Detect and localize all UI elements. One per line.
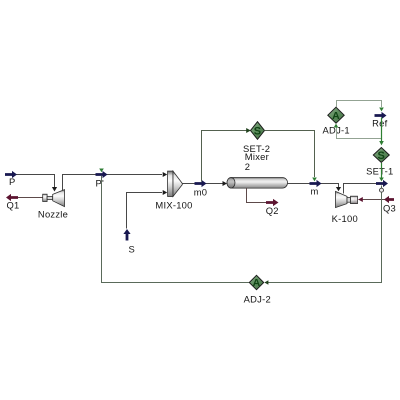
wire SET-2 to m <box>265 131 315 178</box>
adjust ADJ-2 icon <box>249 275 263 289</box>
arrowhead into SET-2 <box>246 128 251 133</box>
arrowhead ADJ-1 at Ref <box>379 108 384 112</box>
energy stream Q1 marker <box>6 194 18 201</box>
wire m0 to SET-2 <box>202 131 250 182</box>
svg-text:m: m <box>310 186 318 197</box>
set SET-1 icon <box>373 148 389 163</box>
arrowhead into K-100 inlet <box>336 187 341 191</box>
stream m marker <box>310 180 322 187</box>
arrowhead SET-1 at outlet stream <box>379 178 384 182</box>
stream S marker (points up) <box>123 229 130 241</box>
stream Ref marker <box>375 112 387 119</box>
svg-text:S: S <box>378 150 386 162</box>
svg-text:MIX-100: MIX-100 <box>155 199 192 210</box>
svg-text:K-100: K-100 <box>332 213 358 224</box>
wire green line to ADJ-1 bottom <box>337 128 382 139</box>
junction circle below outlet stream <box>380 186 384 193</box>
arrowhead SET-2 at m <box>312 178 317 182</box>
svg-text:SET-1: SET-1 <box>366 166 393 177</box>
stream P marker <box>5 171 17 178</box>
arrowhead into ADJ-1 bottom <box>334 124 339 128</box>
stream P' marker <box>96 171 108 178</box>
arrowhead into MIX-100 top inlet <box>163 172 168 177</box>
svg-text:A: A <box>253 277 261 289</box>
svg-text:P: P <box>9 176 16 187</box>
arrowhead into pipe inlet <box>223 181 228 186</box>
wire K-100 outlet to outlet stream <box>344 184 378 194</box>
svg-text:Q3: Q3 <box>383 203 396 214</box>
wire pipe to m to K-100 inlet <box>288 184 339 188</box>
arrowhead into Nozzle inlet <box>52 187 57 192</box>
arrowhead into SET-1 top <box>379 141 384 145</box>
svg-text:S: S <box>254 126 262 138</box>
wire SET-1 to K-100 outlet stream <box>381 163 383 178</box>
svg-text:2: 2 <box>245 161 250 172</box>
arrowhead ADJ-2 target at P' <box>99 169 104 173</box>
wire Q3 to K-100 <box>359 199 395 201</box>
wire MIX-100 outlet to pipe <box>183 183 223 185</box>
svg-text:Q2: Q2 <box>266 205 279 216</box>
adjust ADJ-1 icon <box>328 107 344 123</box>
svg-text:S: S <box>129 244 136 255</box>
svg-text:Nozzle: Nozzle <box>38 209 68 220</box>
energy stream Q2 marker <box>266 199 279 206</box>
nozzle Nozzle icon <box>43 190 65 207</box>
wire ADJ-2 to P' <box>102 176 250 283</box>
svg-text:A: A <box>332 110 340 122</box>
svg-text:Ref: Ref <box>372 117 387 128</box>
wire P to Nozzle inlet <box>6 175 55 188</box>
wire outlet junction to ADJ-2 <box>265 192 382 282</box>
svg-text:P': P' <box>96 178 105 189</box>
pipe Mixer 2 icon <box>227 178 288 189</box>
svg-text:Q1: Q1 <box>7 200 20 211</box>
stream m0 marker <box>195 180 207 187</box>
mixer MIX-100 icon <box>168 171 183 196</box>
set SET-2 icon <box>251 122 265 140</box>
svg-text:m0: m0 <box>194 187 208 198</box>
wire Q1 to Nozzle <box>16 197 43 199</box>
arrowhead into MIX-100 bottom inlet <box>163 190 168 195</box>
stream K-100 outlet marker <box>376 180 388 187</box>
wire Ref to SET-1 <box>381 118 383 142</box>
energy stream Q3 marker <box>384 196 394 203</box>
svg-text:ADJ-2: ADJ-2 <box>244 294 271 305</box>
energy stream Q2 wire from pipe <box>247 188 267 203</box>
arrowhead Q3 into K-100 <box>358 197 363 202</box>
wire ADJ-1 to Ref <box>337 101 382 108</box>
arrowhead into ADJ-2 <box>264 280 268 285</box>
wire S to MIX-100 bottom inlet <box>127 193 163 229</box>
compressor K-100 icon <box>336 191 358 207</box>
wire Nozzle outlet to P' to MIX-100 <box>63 175 163 191</box>
